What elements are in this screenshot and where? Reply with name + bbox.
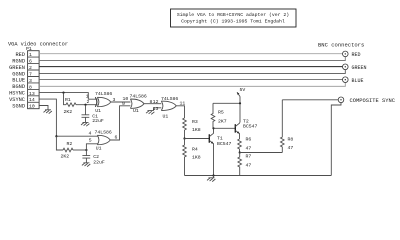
wire 5V rail [213,97,240,123]
svg-text:Simple VGA to RGB+CSYNC adapte: Simple VGA to RGB+CSYNC adapter (ver 2) [177,12,289,18]
svg-text:10: 10 [29,104,35,110]
svg-text:74LS86: 74LS86 [161,96,178,102]
title box [171,9,297,27]
ground pin13 [146,111,154,115]
wire R2 branch [56,136,63,150]
svg-text:P1: P1 [26,46,32,52]
BNC COMPOSITE SYNC [338,97,395,104]
node T1 emitter junction [212,174,214,176]
svg-text:RED: RED [15,52,25,58]
svg-text:U1: U1 [133,108,139,114]
resistor R4 [183,139,201,176]
svg-text:U1: U1 [163,113,169,119]
svg-text:RGND: RGND [12,58,25,64]
node VSYNC junction [55,135,57,137]
svg-text:VGA video connector: VGA video connector [8,42,68,48]
wire C1 lead [85,105,87,115]
svg-text:R2: R2 [67,141,73,147]
resistor R6 [238,137,252,153]
ground SGND [44,110,52,114]
power 5V [237,87,245,97]
svg-text:BC547: BC547 [217,141,232,147]
resistor R8 [281,100,294,153]
node R2/C2 junction [85,149,87,151]
wire SGND [39,106,48,110]
svg-text:12: 12 [153,99,159,105]
op XOR gate U1c [95,94,147,115]
wire composite sync [282,99,338,101]
node 5V junction [239,102,241,104]
svg-text:6: 6 [29,59,32,65]
svg-text:RED: RED [352,52,361,58]
svg-text:1: 1 [29,52,32,58]
svg-text:GREEN: GREEN [9,65,25,71]
svg-text:HSYNC: HSYNC [9,91,25,97]
capacitor C2 [82,154,104,166]
capacitor C1 [82,113,104,124]
wire BGND row [39,82,345,86]
svg-text:8: 8 [29,84,32,90]
svg-text:74LS86: 74LS86 [95,130,112,136]
wire to gate B pin5 [86,144,97,150]
svg-text:5: 5 [89,138,92,144]
wire RED row [39,53,342,55]
node T1 collector junction [212,127,214,129]
svg-text:47: 47 [288,145,294,151]
resistor R7 [238,153,251,176]
svg-text:2K2: 2K2 [61,154,70,160]
resistor R5 [211,103,227,128]
svg-text:GREEN: GREEN [352,65,367,71]
svg-text:7: 7 [29,71,32,77]
wire gate D pin13 [154,108,162,111]
svg-text:22uF: 22uF [93,159,105,165]
svg-text:C2: C2 [93,154,99,160]
svg-text:R6: R6 [246,137,252,143]
svg-text:R3: R3 [192,119,198,125]
svg-text:2: 2 [29,65,32,71]
wire GREEN row [39,66,342,68]
node HSYNC junction [62,92,64,94]
svg-text:VSYNC: VSYNC [9,97,25,103]
svg-text:GGND: GGND [12,71,25,77]
node R6/R7 junction [239,151,241,153]
svg-text:SGND: SGND [12,104,25,110]
svg-text:T1: T1 [217,136,223,142]
svg-text:U1: U1 [96,146,102,152]
op XOR gate U1b [95,97,112,151]
svg-text:13: 13 [153,106,159,112]
svg-text:13: 13 [29,91,35,97]
wire GGND row [39,70,345,74]
svg-text:R5: R5 [218,110,224,116]
svg-text:BGND: BGND [12,84,25,90]
svg-text:5V: 5V [240,87,246,93]
svg-text:R8: R8 [288,137,294,143]
svg-text:47: 47 [246,162,252,168]
connector P1 [26,46,39,109]
wire BNC ground [331,103,341,176]
svg-text:9: 9 [122,101,125,107]
svg-text:74LS86: 74LS86 [130,94,147,100]
wire BLUE row [39,79,342,81]
wire RGND row [39,57,345,61]
wire gate D out to R3 [176,106,184,118]
resistor R1 [64,97,98,115]
ground C1 [81,122,89,126]
svg-text:BC547: BC547 [243,124,258,130]
wire gate A out to gate C [111,101,131,103]
transistor T1 [209,128,231,175]
wire R1 branch [64,93,67,105]
wire HSYNC [39,93,97,100]
svg-text:R1: R1 [65,97,71,103]
svg-text:2: 2 [87,99,90,105]
svg-text:74LS86: 74LS86 [95,91,112,97]
node R3/R4/base junction [183,137,185,139]
wire T1 base [185,138,210,140]
wire VSYNC to gate B pin4 [56,135,97,137]
wire C2 lead [85,150,87,155]
svg-text:22uF: 22uF [92,118,104,124]
svg-text:COMPOSITE SYNC: COMPOSITE SYNC [350,98,396,104]
svg-text:1K8: 1K8 [192,155,201,161]
transistor T2 [235,119,257,140]
ground bus symbol [207,176,215,182]
svg-text:R7: R7 [246,154,252,160]
svg-text:BNC connectors: BNC connectors [318,42,364,48]
wire gate B out to gate C pin9 [110,106,130,140]
BNC GREEN [343,64,367,71]
svg-text:U1: U1 [95,108,101,114]
svg-text:4: 4 [89,131,92,137]
op XOR gate U1d [95,96,178,119]
resistor R2 [61,141,87,160]
svg-text:1: 1 [86,94,89,100]
svg-text:1K8: 1K8 [192,127,201,133]
resistor R3 [183,118,201,139]
ground C2 [82,163,90,167]
svg-text:2K2: 2K2 [64,109,73,115]
wire collector to T2 base [214,127,236,129]
svg-text:3: 3 [29,78,32,84]
wire ground bus [185,175,332,177]
op XOR gate U1a [95,91,112,114]
svg-text:R4: R4 [192,147,198,153]
svg-text:Copyright (C) 1993-1995 Tomi E: Copyright (C) 1993-1995 Tomi Engdahl [181,19,285,25]
BNC RED [343,51,361,58]
svg-text:14: 14 [29,97,35,103]
svg-text:2K7: 2K7 [218,119,227,125]
wire VSYNC [39,99,56,136]
svg-text:BLUE: BLUE [12,78,25,84]
svg-text:47: 47 [246,146,252,152]
wire gate C out to gate D [144,103,161,105]
wire R6/R7 node to R8 [240,152,283,154]
node R1/C1 junction [84,104,86,106]
BNC BLUE [343,77,364,84]
svg-text:BLUE: BLUE [352,78,364,84]
